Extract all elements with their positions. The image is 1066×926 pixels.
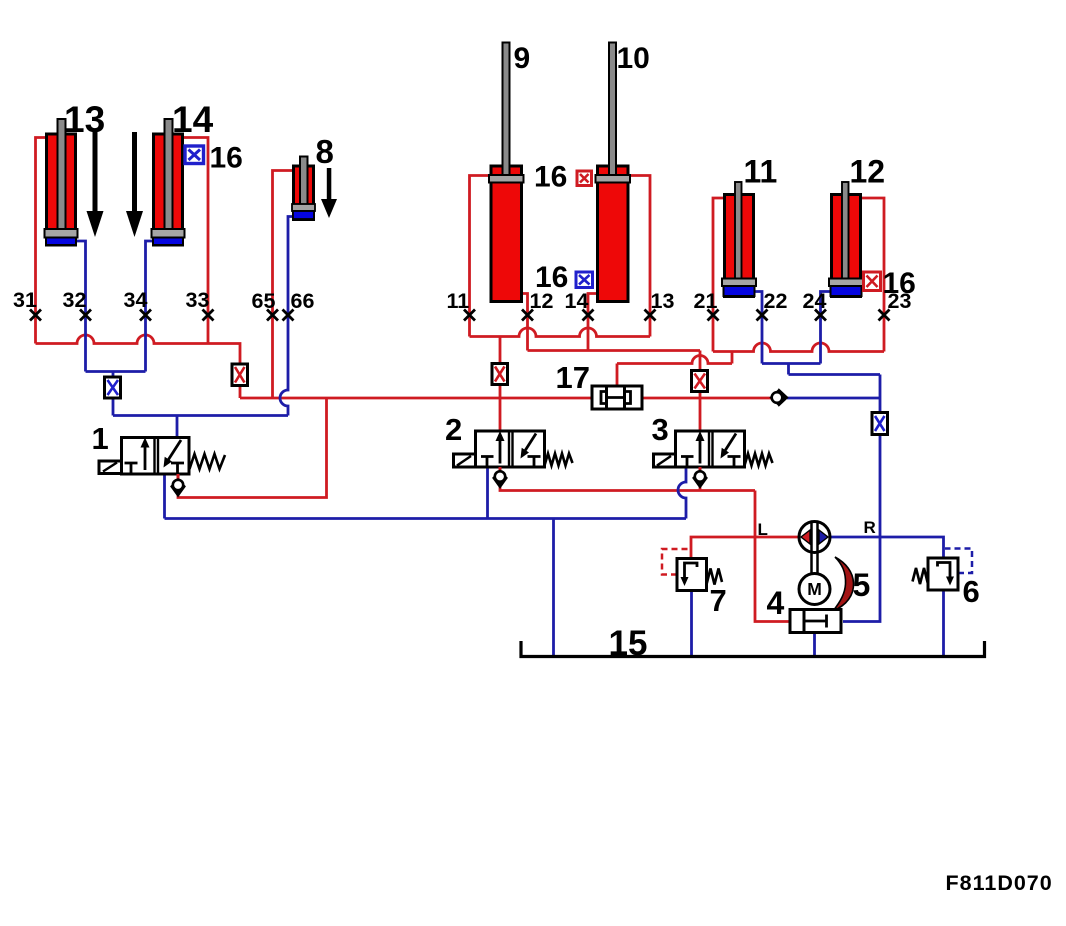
svg-text:22: 22 [764, 289, 788, 313]
label 14 [172, 99, 214, 140]
port label 32 [63, 288, 87, 312]
wire blue cylinder 13 bottom to port 32 [73, 241, 86, 372]
wire blue tank return rail [165, 517, 687, 520]
label 12 [850, 154, 886, 190]
port label 22 [764, 289, 788, 313]
pilot line relief valve 6 (dashed) [945, 549, 972, 574]
svg-text:13: 13 [651, 289, 675, 313]
wire red pump left port L [691, 537, 799, 559]
pump-motor shaft [812, 523, 818, 574]
port label 31 [13, 288, 37, 312]
label 16 red center [534, 161, 567, 194]
port mark 34 [140, 310, 151, 321]
wire red check outputs rail to pump L [500, 484, 790, 622]
arrow at cylinder 14 [126, 132, 143, 237]
relief valve 7 [677, 559, 722, 591]
svg-text:16: 16 [534, 161, 567, 194]
wire blue relief valve 6 drain [942, 590, 945, 657]
svg-text:17: 17 [556, 360, 590, 395]
svg-text:7: 7 [710, 583, 727, 618]
svg-text:32: 32 [63, 288, 87, 312]
svg-text:65: 65 [252, 289, 276, 313]
cylinder 8 [292, 157, 315, 220]
port label 21 [694, 289, 718, 313]
wire red cylinder 10 top to port 13 [625, 176, 650, 337]
label 11 [744, 154, 778, 190]
wire blue link ports 32-34 to filter drop [86, 372, 146, 416]
wire blue coupler to R line [787, 397, 880, 400]
label L [758, 520, 768, 539]
port mark 13 [645, 310, 656, 321]
port mark 24 [815, 310, 826, 321]
label 1 [92, 421, 109, 456]
port mark 21 [708, 310, 719, 321]
svg-text:14: 14 [172, 99, 214, 140]
svg-text:8: 8 [316, 133, 334, 170]
hand pump 4 [790, 610, 841, 633]
label 2 [445, 412, 462, 447]
coupler on main rail [771, 390, 787, 405]
svg-text:2: 2 [445, 412, 462, 447]
cylinder 12 [829, 182, 863, 297]
label 7 [710, 583, 727, 618]
svg-text:9: 9 [514, 42, 531, 75]
test point 16 red at cylinder 10 top [577, 171, 592, 186]
relief valve 6 [913, 558, 959, 590]
wire red cylinder 13 top to port 31 [36, 138, 50, 344]
wire red main pressure rail [240, 397, 771, 400]
port label 24 [803, 289, 827, 313]
label 16 right [883, 267, 916, 300]
valve 3 check valve [694, 467, 707, 487]
wire blue R line down to hand pump 4 [843, 375, 880, 622]
pump bidirectional [799, 522, 830, 553]
svg-text:12: 12 [530, 289, 554, 313]
port mark 22 [757, 310, 768, 321]
wire blue pump right port R [831, 537, 944, 558]
orifice filter on blue line below ports 32/34 [105, 377, 121, 398]
valve 2 lever actuator [454, 454, 476, 467]
svg-text:3: 3 [652, 412, 669, 447]
orifice filter on red line above valve 2 [492, 364, 508, 385]
wire blue valve 2 tank out [486, 467, 489, 519]
port label 23 [888, 289, 912, 313]
valve 3 lever actuator [654, 454, 676, 467]
wire blue relief valve 7 drain [690, 591, 693, 657]
svg-text:14: 14 [565, 289, 589, 313]
label 3 [652, 412, 669, 447]
wire red center top rail ports 11-13 [470, 328, 651, 337]
svg-text:16: 16 [210, 142, 243, 175]
port label 11 [447, 289, 470, 313]
label 15 [609, 624, 648, 663]
cylinder 13 [45, 119, 78, 245]
cylinder 14 [152, 119, 185, 245]
valve 3 spring [745, 454, 773, 466]
port label 34 [124, 288, 148, 312]
port label 13 [651, 289, 675, 313]
label 10 [617, 42, 650, 75]
orifice filter on red line below port 33 [232, 364, 248, 386]
wire blue valve 1 feed drop [176, 416, 179, 438]
arrow at cylinder 13 [87, 132, 104, 237]
label 9 [514, 42, 531, 75]
svg-text:11: 11 [447, 289, 470, 313]
port mark 66 [283, 310, 294, 321]
svg-text:24: 24 [803, 289, 827, 313]
wire blue right link ports 22-24 [762, 364, 880, 375]
port label 65 [252, 289, 276, 313]
label 8 [316, 133, 334, 170]
wire blue valve 1 tank out [163, 474, 166, 519]
wire red cylinder 12 top to port 23 [858, 198, 884, 352]
svg-text:11: 11 [744, 154, 778, 190]
wire blue cylinder 14 bottom to port 34 [146, 241, 157, 372]
component 17 inline damper [592, 386, 642, 409]
port label 66 [291, 289, 315, 313]
test point 16 blue at cylinder 10 bottom [576, 272, 593, 288]
cylinder 9 [489, 43, 524, 302]
wire blue cylinder 12 bottom to port 24 [821, 292, 831, 364]
svg-text:23: 23 [888, 289, 912, 313]
valve 1 check valve [172, 474, 185, 496]
svg-text:13: 13 [64, 99, 105, 140]
svg-text:F811D070: F811D070 [946, 871, 1053, 895]
valve 2 check valve [494, 467, 507, 487]
label 13 [64, 99, 105, 140]
wire blue hand pump 4 drain [813, 633, 816, 657]
wire red left rail ports 31-33 to filter [36, 335, 241, 398]
svg-text:21: 21 [694, 289, 718, 313]
svg-text:1: 1 [92, 421, 109, 456]
port mark 32 [80, 310, 91, 321]
wire red valve 1 check output to rail [178, 398, 327, 498]
port label 12 [530, 289, 554, 313]
port mark 65 [267, 310, 278, 321]
reservoir 15 [521, 641, 985, 657]
svg-text:10: 10 [617, 42, 650, 75]
rotation arrow 5 [833, 557, 854, 611]
svg-text:66: 66 [291, 289, 315, 313]
valve 1 directional valve body [122, 438, 190, 475]
valve 2 directional valve body [476, 431, 545, 467]
wire red cylinder 9 top to port 11 [470, 176, 495, 337]
arrow at cylinder 8 [321, 168, 337, 218]
cylinder 11 [722, 182, 756, 297]
label 17 [556, 360, 590, 395]
motor M [799, 574, 830, 605]
test point 16 red at cylinder 12 [864, 272, 881, 291]
wire red cylinder 10 bottom to port 14 [588, 294, 600, 351]
label 16 top left [210, 142, 243, 175]
drawing number [946, 871, 1053, 895]
label 6 [963, 574, 980, 609]
valve 3 directional valve body [676, 431, 745, 467]
port mark 33 [203, 310, 214, 321]
svg-text:M: M [807, 579, 822, 599]
svg-text:5: 5 [853, 567, 871, 603]
wire red right rail ports 21-23 [713, 343, 884, 352]
port mark 14 [583, 310, 594, 321]
wire red right rail to component 17 top [617, 352, 732, 388]
label 16 blue center [535, 261, 568, 294]
svg-text:31: 31 [13, 288, 37, 312]
label 4 [767, 585, 785, 621]
wire red valve 2 feed drop [499, 337, 502, 432]
wire red cylinder 14 top to port 33 [181, 138, 208, 344]
svg-text:L: L [758, 520, 768, 539]
svg-text:R: R [864, 518, 876, 537]
wire red center bottom link ports 12-14 [528, 349, 701, 352]
orifice filter on red line above valve 3 [692, 371, 708, 392]
port label 33 [186, 288, 210, 312]
svg-text:34: 34 [124, 288, 148, 312]
label 5 [853, 567, 871, 603]
svg-text:6: 6 [963, 574, 980, 609]
port mark 12 [522, 310, 533, 321]
pilot line relief valve 7 (dashed) [662, 549, 690, 575]
port mark 11 [464, 310, 475, 321]
test point 16 blue at cylinder 14 [185, 146, 204, 164]
port mark 23 [879, 310, 890, 321]
wire red cylinder 9 bottom to port 12 [519, 294, 528, 351]
wire blue valve 3 tank out with jump [678, 467, 686, 519]
valve 2 spring [545, 454, 573, 466]
valve 1 spring [190, 454, 226, 469]
wire red valve 3 feed drop [699, 351, 702, 432]
port label 14 [565, 289, 589, 313]
valve 1 lever actuator [99, 461, 122, 474]
svg-text:12: 12 [850, 154, 886, 190]
port mark 31 [30, 310, 41, 321]
wire red cylinder 8 top to port 65 to rail [273, 171, 297, 399]
wire blue cylinder 11 bottom to port 22 [755, 292, 762, 364]
svg-text:4: 4 [767, 585, 785, 621]
svg-text:33: 33 [186, 288, 210, 312]
wire red cylinder 11 top to port 21 [713, 198, 727, 352]
label R [864, 518, 876, 537]
wire blue rail to valve 1 [113, 414, 288, 417]
cylinder 10 [596, 43, 631, 302]
wire blue cylinder 8 bottom to port 66 with jump [280, 217, 296, 416]
wire blue reservoir drop [552, 519, 555, 657]
svg-text:15: 15 [609, 624, 648, 663]
orifice filter on blue R line [872, 413, 888, 435]
